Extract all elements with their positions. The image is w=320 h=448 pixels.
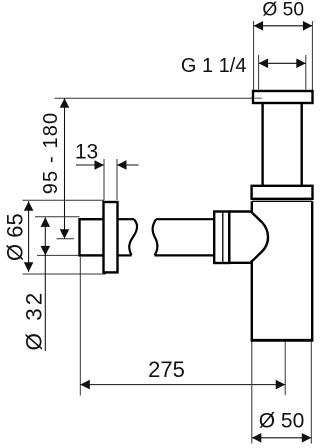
- wire: wall-face extension line down to 275 dimension: [79, 257, 81, 396]
- svg-text:Ø 50: Ø 50: [259, 410, 305, 433]
- horizontal pipe segment A with break: [118, 219, 137, 255]
- dimension 95-180 vertical line with arrows: [60, 98, 70, 239]
- svg-text:275: 275: [148, 357, 185, 382]
- tick: centerline reference at bottom of 95-180: [57, 238, 75, 240]
- dimension Ø65: extension lines: [23, 200, 107, 274]
- dimension 13: extension lines: [104, 159, 117, 200]
- dimension Ø50 bottom: extension lines: [252, 342, 311, 444]
- svg-text:Ø 32: Ø 32: [22, 290, 47, 351]
- horizontal pipe segment B with break: [153, 219, 215, 255]
- top flange of vertical inlet pipe: [253, 91, 313, 103]
- svg-text:G 1 1/4: G 1 1/4: [181, 55, 247, 77]
- dimension 275: dimension line with arrows: [80, 380, 285, 390]
- wire: horizontal reference line at top of height dimension: [55, 97, 263, 99]
- wall flange (rosette): [104, 202, 118, 272]
- bottle top nut: [252, 186, 313, 199]
- svg-text:95 - 180: 95 - 180: [40, 112, 62, 195]
- dimension Ø65: vertical dimension line with arrows: [24, 201, 34, 271]
- bottle lip line: [252, 200, 312, 202]
- svg-text:Ø 65: Ø 65: [3, 213, 28, 261]
- dimension G 1 1/4: extension lines: [259, 55, 306, 90]
- dimension Ø50 top: dimension line with arrows: [254, 21, 313, 31]
- svg-text:13: 13: [75, 141, 98, 164]
- dimension Ø32: extension lines: [35, 217, 80, 256]
- wall pipe stub: [80, 219, 105, 255]
- dimension Ø50 bottom: dimension line with arrows: [252, 433, 311, 443]
- wire: trap axis extension line down to 275 dimension: [284, 342, 286, 396]
- dimension 13: arrows pointing inward from outside: [76, 160, 139, 170]
- svg-text:Ø 50: Ø 50: [262, 0, 304, 21]
- dimension Ø32: vertical dimension line with arrows, extended below: [41, 217, 51, 351]
- dimension G 1 1/4: dimension line with arrows: [259, 59, 306, 69]
- inlet nut inner line: [222, 213, 224, 262]
- inlet connector bullet: [229, 212, 268, 263]
- dimension Ø50 top: extension lines: [254, 21, 313, 90]
- inlet compression nut: [214, 212, 229, 264]
- bottle body: [251, 201, 314, 340]
- vertical pipe walls: [263, 103, 302, 186]
- wire: reference line continuing into flange: [255, 97, 263, 99]
